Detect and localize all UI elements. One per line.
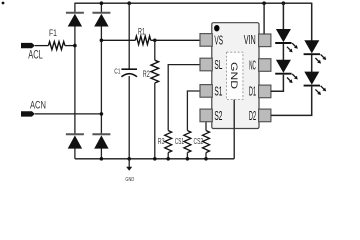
fuse F1 [48, 42, 65, 50]
node top bus x VIN riser [262, 1, 266, 5]
pin NC [259, 59, 271, 72]
svg-text:R3: R3 [158, 137, 165, 146]
wire SL to R3 [168, 65, 200, 131]
terminal ACL [21, 43, 48, 48]
svg-text:VIN: VIN [244, 33, 256, 47]
wire bottom bus [75, 158, 234, 160]
svg-text:S1: S1 [214, 84, 222, 98]
node bottom bus x col2 [100, 157, 104, 161]
ground [126, 159, 132, 171]
diode D bottom-right [92, 134, 110, 148]
svg-text:ACL: ACL [28, 49, 43, 61]
node top bus x C1 [127, 1, 131, 5]
resistor R3 [165, 131, 172, 153]
svg-text:NC: NC [249, 59, 256, 73]
wire CS1 bottom lead [186, 153, 188, 159]
svg-text:F1: F1 [49, 28, 57, 38]
node CS1 x bottom bus [186, 157, 190, 161]
wire S1 to CS1 [187, 91, 200, 131]
svg-text:GND: GND [229, 62, 240, 89]
wire top bus [75, 2, 312, 4]
node R1 left junction [100, 39, 104, 43]
node top bus x col2 [100, 1, 104, 5]
LED D1a [275, 29, 298, 52]
pin S1 [200, 85, 212, 98]
svg-text:GND: GND [125, 177, 134, 183]
wire R2 bottom lead [154, 83, 156, 159]
pin D1 [259, 85, 271, 98]
svg-text:CS2: CS2 [194, 137, 204, 146]
op-amp U1 body [212, 23, 259, 129]
wire R2 top lead [154, 40, 156, 60]
node top bus x LED string 1 [282, 1, 286, 5]
pin D2 [259, 109, 271, 122]
wire VIN riser [263, 3, 265, 34]
node CS2 x bottom bus [204, 157, 208, 161]
node R1/R2 junction [153, 39, 157, 43]
stray dot top-left [2, 2, 5, 5]
svg-text:R2: R2 [143, 69, 150, 79]
node R3 x bottom bus [166, 157, 170, 161]
capacitor C1 [121, 69, 137, 77]
LED D2b [304, 72, 327, 95]
LED D1b [275, 60, 298, 83]
wire GND pad to body edge [233, 100, 235, 129]
svg-text:SL: SL [214, 58, 222, 72]
svg-text:CS1: CS1 [175, 137, 184, 146]
pin VIN [259, 34, 271, 47]
svg-text:VS: VS [214, 33, 223, 47]
diode D top-left [66, 13, 84, 27]
resistor R2 [151, 60, 159, 83]
pin 1 mark [214, 25, 219, 31]
resistor R1 [135, 36, 150, 44]
node ACN junction [100, 112, 104, 116]
wire R1 row [101, 39, 135, 41]
resistor CS1 [184, 131, 191, 153]
wire left bridge column [74, 3, 76, 159]
pin VS [200, 34, 212, 47]
pin S2 [200, 109, 212, 122]
wire C1 column [128, 3, 130, 159]
terminal ACN [21, 111, 101, 116]
GND pad box [227, 52, 243, 99]
svg-text:D2: D2 [249, 109, 256, 123]
wire LED string 1 [271, 3, 284, 92]
svg-text:C1: C1 [114, 66, 120, 75]
diode D bottom-left [66, 134, 84, 148]
wire LED string 2 [271, 3, 312, 116]
svg-text:S2: S2 [214, 109, 222, 123]
node R2 x bottom bus [153, 157, 157, 161]
wire S2 to CS2 [205, 122, 207, 131]
svg-text:R1: R1 [138, 27, 145, 37]
pin SL [200, 58, 212, 71]
node bottom bus x C1/GND [127, 157, 131, 161]
diode D top-right [92, 13, 110, 27]
svg-text:D1: D1 [249, 85, 256, 99]
wire F1 to bridge [65, 45, 75, 47]
resistor CS2 [203, 131, 210, 153]
wire R3 bottom lead [167, 153, 169, 159]
wire right bridge column [100, 3, 102, 159]
wire R1 to VS pin [151, 39, 201, 41]
svg-text:ACN: ACN [30, 99, 46, 111]
wire GND riser to IC [233, 100, 235, 159]
LED D2a [304, 40, 327, 63]
wire CS2 bottom lead [205, 153, 207, 159]
node ACL junction [73, 44, 77, 48]
